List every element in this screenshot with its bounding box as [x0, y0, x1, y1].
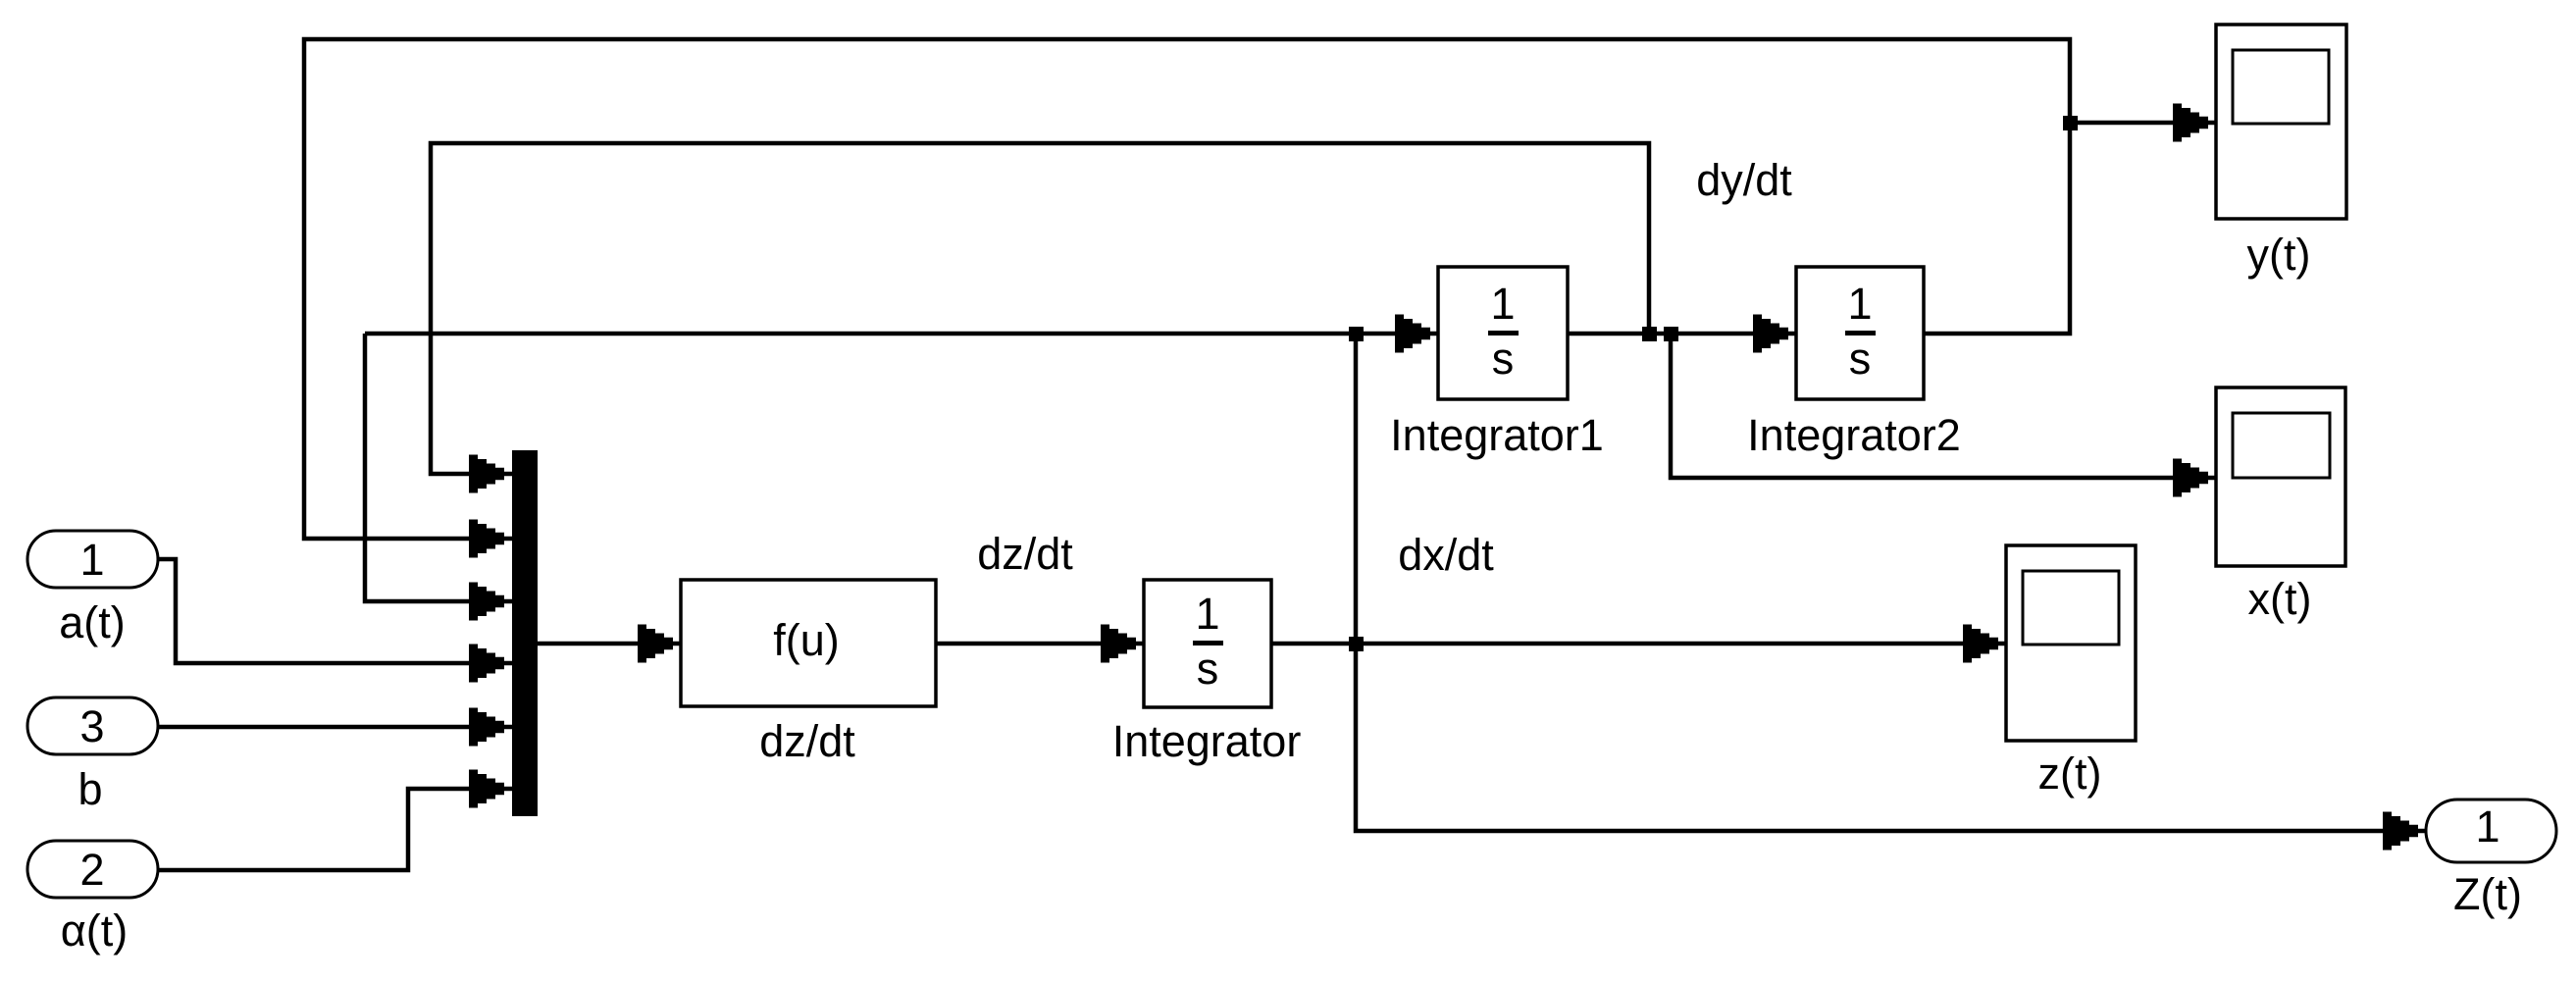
- wire inport 2 to mux input 6: [158, 789, 512, 870]
- svg-text:Integrator1: Integrator1: [1390, 410, 1604, 460]
- wire dy/dt feedback (up from Integrator1 out, across, down to mux input 1): [431, 143, 1649, 474]
- inport 1: [27, 531, 158, 588]
- svg-text:dy/dt: dy/dt: [1696, 155, 1792, 205]
- svg-text:f(u): f(u): [773, 615, 840, 665]
- label Integrator1: [1390, 410, 1604, 460]
- svg-text:1: 1: [79, 535, 104, 585]
- svg-text:b: b: [77, 764, 102, 814]
- svg-text:z(t): z(t): [2038, 749, 2102, 799]
- svg-text:Z(t): Z(t): [2453, 869, 2522, 919]
- svg-text:s: s: [1197, 644, 1219, 694]
- arrowhead into f(u): [638, 625, 673, 663]
- wire inport 3 to mux input 5: [158, 725, 512, 730]
- svg-text:dx/dt: dx/dt: [1398, 530, 1494, 580]
- wire Integrator output to z(t) scope: [1271, 642, 2006, 646]
- svg-text:s: s: [1849, 334, 1872, 384]
- arrowhead mux input 1: [469, 455, 504, 493]
- wire dx/dt down to x(t) scope: [1671, 334, 2216, 478]
- arrowhead into Integrator2: [1753, 315, 1788, 353]
- arrowhead into z(t) scope: [1963, 625, 1998, 663]
- svg-text:α(t): α(t): [61, 905, 129, 955]
- svg-text:Integrator2: Integrator2: [1747, 410, 1961, 460]
- wire z branch down to outport Z(t): [1356, 334, 2426, 831]
- label dy/dt (signal name): [1696, 155, 1792, 205]
- block Integrator1 1/s: [1438, 267, 1568, 399]
- svg-text:x(t): x(t): [2248, 574, 2312, 624]
- svg-text:dz/dt: dz/dt: [977, 529, 1073, 579]
- arrowhead mux input 6: [469, 770, 504, 808]
- arrowhead into x(t) scope: [2173, 459, 2208, 497]
- svg-text:3: 3: [79, 701, 104, 751]
- node junction dot at (2110,125): [2063, 116, 2078, 130]
- svg-text:Integrator: Integrator: [1112, 716, 1302, 766]
- wire x-state down to mux input 3: [365, 334, 512, 601]
- arrowhead mux input 2: [469, 520, 504, 558]
- svg-text:y(t): y(t): [2247, 230, 2311, 280]
- arrowhead mux input 5: [469, 708, 504, 747]
- block Integrator2 1/s: [1796, 267, 1924, 399]
- label Z(t): [2453, 869, 2522, 919]
- label Integrator: [1112, 716, 1302, 766]
- svg-text:1: 1: [1847, 279, 1872, 329]
- wire Integrator1 input line: [365, 332, 1438, 336]
- arrowhead into y(t) scope: [2173, 104, 2208, 142]
- arrowhead mux input 4: [469, 645, 504, 683]
- arrowhead into Integrator: [1101, 625, 1136, 663]
- label b: [77, 764, 102, 814]
- svg-text:2: 2: [79, 845, 104, 895]
- block Integrator 1/s: [1144, 580, 1271, 707]
- scope z(t): [2006, 545, 2136, 741]
- label α(t): [61, 905, 129, 955]
- svg-text:1: 1: [1490, 279, 1515, 329]
- inport 2: [27, 841, 158, 898]
- svg-text:s: s: [1492, 334, 1515, 384]
- label x(t): [2248, 574, 2312, 624]
- label Integrator2: [1747, 410, 1961, 460]
- label dx/dt (signal name): [1398, 530, 1494, 580]
- node junction dot at (1382,340): [1349, 327, 1364, 341]
- label dz/dt (signal name): [977, 529, 1073, 579]
- wire mux output to f(u): [538, 642, 681, 646]
- wire f(u) to Integrator, labelled dz/dt: [936, 642, 1144, 646]
- arrowhead into outport Z(t): [2383, 812, 2418, 851]
- wire inport 1 to mux input 4: [158, 559, 512, 663]
- svg-text:1: 1: [1195, 589, 1219, 639]
- wire Integrator1 to Integrator2: [1568, 332, 1796, 336]
- node junction dot at (1703,340): [1664, 327, 1678, 341]
- svg-text:dz/dt: dz/dt: [759, 716, 855, 766]
- inport 3: [27, 697, 158, 754]
- wire y-feedback (Integrator2 out, up, across top, down to mux input 2): [304, 39, 2070, 539]
- arrowhead mux input 3: [469, 583, 504, 621]
- scope y(t): [2216, 25, 2346, 219]
- label dz/dt (under f(u)): [759, 716, 855, 766]
- scope x(t): [2216, 387, 2345, 566]
- wire branch to y(t) scope: [2070, 121, 2216, 126]
- arrowhead into Integrator1: [1395, 315, 1430, 353]
- block f(u) (Fcn dz/dt): [681, 580, 936, 706]
- label z(t): [2038, 749, 2102, 799]
- mux Mux (black bar): [512, 450, 538, 816]
- node junction dot at (1681,340): [1642, 327, 1657, 341]
- svg-text:1: 1: [2475, 801, 2499, 852]
- label y(t): [2247, 230, 2311, 280]
- label a(t): [59, 597, 126, 647]
- svg-text:a(t): a(t): [59, 597, 126, 647]
- outport 1: [2426, 800, 2556, 862]
- node junction dot at (1382,656): [1349, 637, 1364, 651]
